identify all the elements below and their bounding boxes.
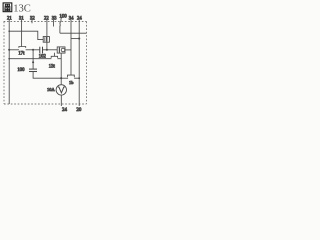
svg-text:100: 100 xyxy=(17,68,25,73)
node at (61.2,78.2) xyxy=(60,77,62,79)
svg-text:32: 32 xyxy=(30,17,35,22)
relay box K1 xyxy=(57,47,65,53)
capacitor 100 top lead xyxy=(32,59,34,69)
switch 18t bar xyxy=(68,75,75,77)
capacitor 102 right lead xyxy=(43,49,57,51)
switch 17t left lead xyxy=(9,49,19,51)
border left (dashed) xyxy=(3,22,5,105)
box K1 inner line xyxy=(58,47,60,53)
node at (9.2,58.7) xyxy=(8,58,10,60)
node at (9.2,31.2) xyxy=(8,30,10,32)
switch 17t right lead xyxy=(26,49,33,51)
capacitor 102 left lead xyxy=(33,49,39,51)
svg-text:20: 20 xyxy=(76,108,81,113)
switch 17t bar xyxy=(19,47,26,48)
svg-text:13C: 13C xyxy=(13,3,31,14)
svg-text:17t: 17t xyxy=(18,52,25,57)
border bottom (dashed) xyxy=(4,103,87,105)
switch 18t right lead xyxy=(74,77,79,79)
wire pin21 vertical xyxy=(8,20,10,104)
switch 13t stem xyxy=(53,53,55,57)
motor M1 bottom lead xyxy=(60,95,62,106)
wire box R1 bottom xyxy=(46,42,48,50)
wire upper-left horizontal xyxy=(9,31,43,39)
node at (79.2,78.2) xyxy=(78,77,80,79)
svg-text:24: 24 xyxy=(62,108,67,113)
svg-text:24: 24 xyxy=(77,17,82,22)
box K1 inner circle xyxy=(61,48,65,52)
border right (dashed) xyxy=(86,22,88,105)
bus wire y58.7 xyxy=(9,58,51,60)
wire relay box bottom vertical xyxy=(60,53,62,85)
node at (9.2,49.8) xyxy=(8,49,10,51)
wire pin22 vertical to resistor box xyxy=(46,20,48,37)
wire 34-24 bridge xyxy=(71,38,79,40)
svg-text:13t: 13t xyxy=(49,65,56,70)
fuse lead down xyxy=(59,26,61,33)
wire from junction down to bus xyxy=(32,50,34,59)
title 圖13C xyxy=(3,3,31,15)
node at (33,49.8) xyxy=(32,49,34,51)
wire pin24 vertical xyxy=(78,20,80,106)
pin 32 stub xyxy=(31,20,33,24)
switch 18t stem to pin34 wire xyxy=(70,20,72,75)
switch 18t left lead xyxy=(61,77,68,79)
svg-text:21: 21 xyxy=(7,17,12,22)
pin 33 stub xyxy=(53,20,55,27)
motor M1 V mark xyxy=(58,87,65,93)
capacitor 100 bottom lead xyxy=(33,72,61,79)
capacitor 102 plates xyxy=(39,47,41,54)
node at (79.2,38.6) xyxy=(78,38,80,40)
svg-text:33: 33 xyxy=(52,17,57,22)
resistor box R1 xyxy=(43,37,49,43)
node at (47,49.8) xyxy=(46,49,48,51)
wire pin31 vertical to switch 17t xyxy=(21,20,23,47)
motor M1 circle xyxy=(56,85,66,95)
fuse 100 xyxy=(60,17,63,26)
svg-text:10A: 10A xyxy=(47,87,56,92)
capacitor 100 plates xyxy=(29,68,37,70)
switch 13t right lead xyxy=(57,58,61,60)
wire fuse output to right border xyxy=(60,32,87,34)
node at (33,62.3) xyxy=(32,61,34,63)
svg-text:34: 34 xyxy=(69,17,74,22)
border top (dashed) xyxy=(4,21,87,23)
box K1 right lead xyxy=(65,49,71,51)
switch 13t bar xyxy=(51,56,57,58)
box R1 inner wire xyxy=(46,37,48,42)
